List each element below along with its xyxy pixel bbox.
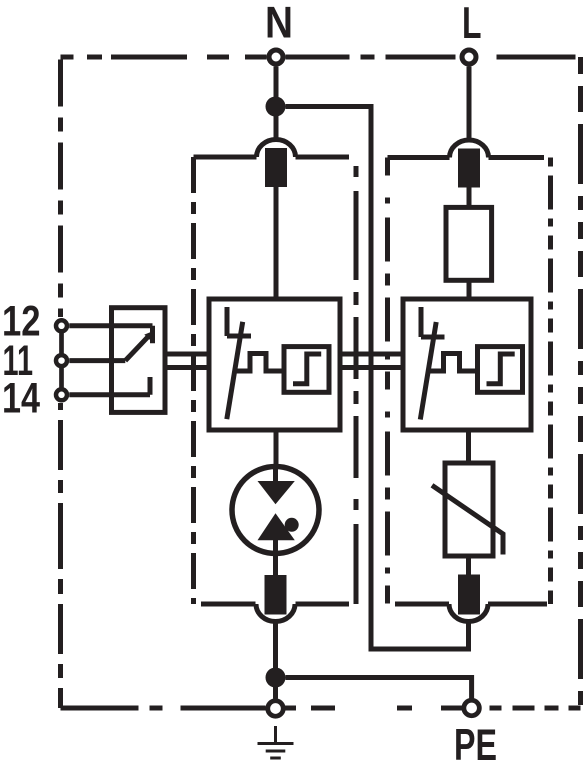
enclosure border right edge [578, 57, 583, 708]
wire terminal 11-14 link [59, 368, 64, 388]
plug-in contact module 1 top [257, 140, 296, 188]
disconnector U1 fixed contact [227, 307, 251, 336]
svg-text:14: 14 [2, 375, 40, 423]
wire terminal 11 to blade [69, 358, 125, 363]
disconnector U1 step symbol [293, 354, 321, 384]
terminal L [462, 50, 476, 64]
wire terminal 14 to contact [69, 377, 150, 395]
disconnector U2 box [403, 299, 531, 430]
wire N node to varistor bottom [286, 107, 469, 650]
enclosure border top edge [61, 55, 581, 60]
wire contact to disconnector U1 [274, 187, 279, 299]
series impedance [446, 207, 492, 280]
protection module 2 border [388, 158, 551, 605]
disconnector U2 step symbol [487, 354, 515, 384]
switch S1 blade [125, 335, 149, 360]
disconnector U1 switch blade [227, 322, 243, 419]
remote contact terminal 11 [56, 355, 67, 366]
wire terminal 12 to contact [69, 326, 152, 343]
enclosure border bottom edge [61, 706, 581, 711]
terminal at enclosure bottom left [268, 701, 284, 717]
wire L terminal to module 2 [467, 67, 472, 141]
wire N terminal to node [274, 67, 279, 140]
linkage lines U1 to U2 [340, 354, 403, 368]
svg-text:L: L [462, 0, 482, 48]
wire contact to impedance [467, 187, 472, 207]
remote contact terminal 14 [56, 389, 67, 400]
disconnector U1 trigger box [284, 347, 329, 393]
plug-in contact module 2 bottom [449, 575, 488, 622]
enclosure border left edge [58, 60, 63, 709]
wire terminal 12-11 link [59, 333, 64, 354]
wire spark gap to PE node [273, 624, 278, 699]
ground [258, 726, 294, 758]
plug-in contact module 1 bottom [256, 575, 295, 622]
disconnector U1 box [209, 299, 340, 430]
terminal N [269, 50, 283, 64]
junction node PE [266, 668, 286, 688]
wire PE node to PE terminal [286, 678, 472, 699]
wire impedance to disconnector U2 [467, 280, 472, 299]
spark gap F1 [232, 464, 319, 575]
svg-text:PE: PE [454, 721, 497, 769]
disconnector U2 trip linkage [428, 354, 477, 372]
protection module 1 border [194, 157, 357, 604]
varistor RV1 [432, 463, 503, 556]
plug-in contact module 2 top [450, 140, 489, 188]
switch S1 blade arrowhead [144, 331, 154, 341]
disconnector U2 switch blade [420, 322, 436, 420]
wire U2 to varistor [466, 430, 471, 463]
svg-text:N: N [265, 0, 293, 48]
wire U1 to spark gap [274, 430, 279, 464]
linkage lines S1 to U1 [165, 354, 209, 368]
terminal PE [464, 700, 480, 716]
remote signalling switch S1 box [112, 308, 166, 413]
disconnector U1 trip linkage [235, 354, 284, 372]
disconnector U2 trigger box [478, 347, 523, 393]
remote contact terminal 12 [56, 320, 67, 331]
disconnector U2 fixed contact [421, 307, 445, 337]
junction node N [266, 97, 286, 117]
wire varistor to contact [466, 556, 471, 575]
